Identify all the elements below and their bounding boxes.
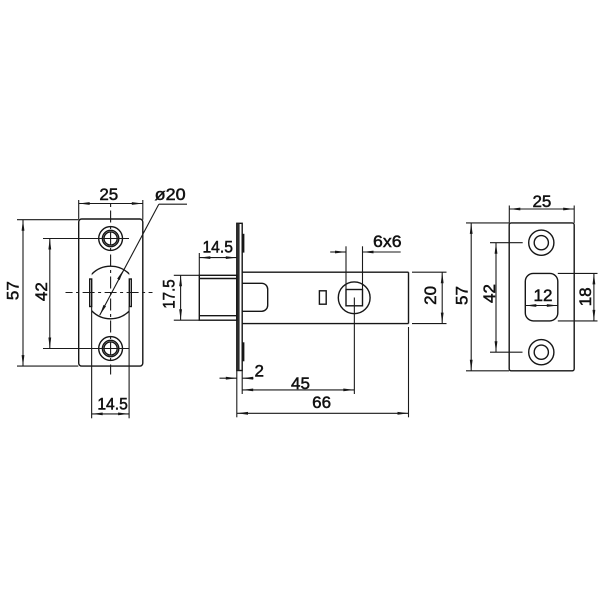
- bottom screw hole: [99, 337, 123, 361]
- dim 14.5 extension line: [198, 253, 200, 275]
- dim 45 line: [242, 389, 354, 391]
- dim 2 line: [220, 377, 237, 379]
- top screw hole: [99, 227, 123, 251]
- svg-text:2: 2: [254, 361, 263, 380]
- svg-text:42: 42: [480, 284, 499, 303]
- dim 20 extension lines: [412, 271, 447, 273]
- bottom screw hole: [529, 340, 554, 365]
- dim 45 extension line from spindle: [353, 298, 355, 395]
- svg-text:20: 20: [421, 286, 440, 305]
- spindle follower circle: [338, 282, 370, 314]
- dim 12 line: [525, 305, 558, 307]
- dim 20 line: [441, 272, 443, 323]
- case body bottom edge: [242, 323, 408, 325]
- svg-text:18: 18: [576, 287, 595, 306]
- horizontal centerline: [66, 292, 153, 294]
- svg-text:42: 42: [32, 282, 51, 301]
- stop pin rectangle: [319, 291, 326, 304]
- dim 14.5 line: [92, 413, 129, 415]
- dim 42 line: [495, 243, 497, 353]
- dim 18 extension lines: [558, 272, 598, 274]
- dia 20 leader line: [100, 204, 159, 315]
- dim 25 extension lines: [508, 206, 510, 223]
- dim 57 extension lines: [466, 222, 509, 224]
- dim 25 line: [509, 208, 574, 210]
- left side bar: [90, 279, 92, 307]
- bolt chamfer line top: [199, 278, 237, 280]
- dim 2 extension lines: [236, 371, 238, 418]
- dim 25 line: [79, 203, 143, 205]
- dim 57 extension lines: [17, 219, 78, 221]
- bolt tail inside case: [242, 283, 268, 311]
- countersink mark bottom: [242, 342, 244, 361]
- dim 42 line: [49, 239, 51, 349]
- case body right edge: [408, 272, 410, 323]
- dim 42 extension lines: [490, 242, 523, 244]
- bolt chamfer line bottom: [199, 315, 237, 317]
- faceplate thick left edge: [237, 224, 240, 371]
- dim 14.5 extension lines: [91, 307, 93, 419]
- faceplate outline: [79, 219, 143, 366]
- dim 17.5 extension lines: [174, 274, 200, 276]
- svg-text:6x6: 6x6: [373, 232, 402, 251]
- svg-text:25: 25: [532, 192, 551, 211]
- svg-text:17.5: 17.5: [159, 279, 178, 309]
- dim 6x6 extension lines: [345, 246, 347, 289]
- dim 17.5 line: [180, 275, 182, 320]
- svg-text:12: 12: [534, 286, 553, 305]
- vertical centerline: [110, 202, 112, 375]
- svg-text:ø20: ø20: [155, 185, 186, 204]
- case body top edge: [242, 271, 408, 273]
- svg-text:14.5: 14.5: [202, 238, 233, 257]
- svg-text:57: 57: [452, 286, 471, 305]
- spindle square hole: [346, 290, 363, 306]
- dim 6x6 line: [330, 251, 346, 253]
- dim 42 extension lines through holes: [43, 238, 129, 240]
- dim 25 extension lines: [78, 200, 80, 220]
- dim 57 line: [470, 223, 472, 371]
- dim 18 line: [593, 273, 595, 321]
- svg-text:66: 66: [312, 393, 331, 412]
- svg-text:25: 25: [99, 185, 118, 204]
- svg-text:57: 57: [3, 281, 22, 300]
- svg-text:45: 45: [291, 374, 310, 393]
- top screw hole: [529, 230, 554, 255]
- faceplate edge: [237, 223, 242, 370]
- latch cutout: [525, 273, 558, 321]
- svg-text:14.5: 14.5: [97, 395, 128, 414]
- countersink mark top: [242, 234, 244, 253]
- dim 66 extension line right: [408, 327, 410, 417]
- dim 14.5 line: [199, 257, 237, 259]
- strike plate outline: [509, 223, 574, 371]
- dim 66 line: [237, 412, 409, 414]
- right side bar: [129, 279, 131, 307]
- latch bolt protruding: [199, 275, 237, 320]
- dim 57 line: [22, 220, 24, 366]
